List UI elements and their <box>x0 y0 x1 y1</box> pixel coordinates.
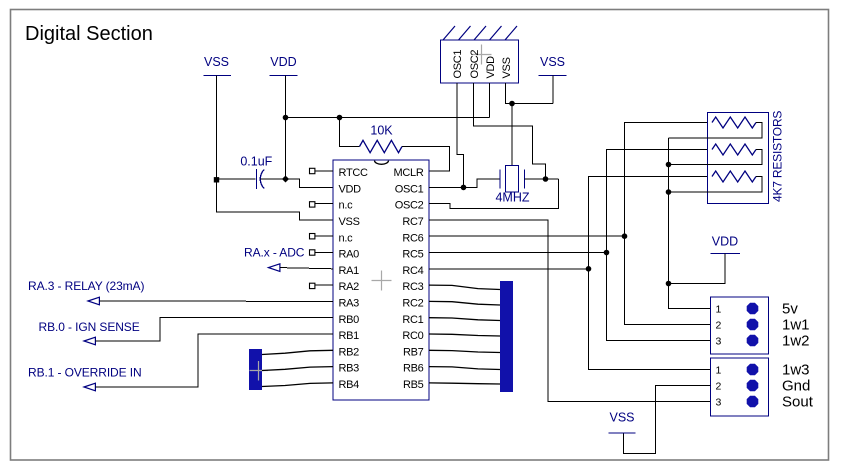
junction OSC1 node <box>461 185 467 191</box>
svg-text:RB1: RB1 <box>339 330 360 342</box>
svg-text:RB2: RB2 <box>339 346 360 358</box>
wire RB4 to left bus <box>262 383 333 387</box>
wire VDD symbol down to capacitor node <box>285 76 287 180</box>
wire RC6 row <box>429 235 625 237</box>
svg-text:RB7: RB7 <box>403 346 424 358</box>
svg-text:Digital Section: Digital Section <box>25 23 153 45</box>
unconnected pin RA0 <box>310 250 334 255</box>
svg-text:RB4: RB4 <box>339 379 360 391</box>
wire RC4 row <box>429 268 589 270</box>
svg-text:RA.3 - RELAY (23mA): RA.3 - RELAY (23mA) <box>28 279 144 293</box>
unconnected pin RA2 <box>310 283 334 288</box>
junction VDD tap <box>666 281 672 287</box>
svg-text:RA0: RA0 <box>339 249 360 261</box>
svg-text:RA3: RA3 <box>339 298 360 310</box>
wire RA3 <box>99 300 333 302</box>
svg-text:3: 3 <box>716 397 722 409</box>
IC U1 <box>333 160 429 400</box>
svg-text:RB3: RB3 <box>339 363 360 375</box>
svg-text:VDD: VDD <box>339 183 362 195</box>
svg-text:4K7 RESISTORS: 4K7 RESISTORS <box>770 111 784 202</box>
svg-text:4MHZ: 4MHZ <box>495 191 529 205</box>
junction RC4 / 1w3 <box>586 266 592 272</box>
wire OSC2 node to IC OSC2 pin <box>429 179 559 209</box>
svg-text:RB.1 - OVERRIDE IN: RB.1 - OVERRIDE IN <box>28 366 142 380</box>
junction RN1b return on VDD vertical <box>666 162 672 168</box>
svg-text:RA1: RA1 <box>339 265 360 277</box>
junction RC5 / 1w2 <box>604 250 610 256</box>
wire RC7 to Sout <box>429 220 711 402</box>
resistor RN1a <box>712 117 756 128</box>
svg-text:1: 1 <box>716 365 722 377</box>
svg-text:5v: 5v <box>782 301 798 318</box>
wire header pin OSC2 down to crystal right node <box>474 83 546 179</box>
svg-text:VSS: VSS <box>540 55 565 69</box>
svg-text:RA.x - ADC: RA.x - ADC <box>244 246 305 260</box>
power symbol VSS top-left <box>204 55 232 76</box>
wire RC0 to right bus <box>429 334 500 336</box>
junction capacitor node at VDD vertical <box>282 175 289 182</box>
svg-text:3: 3 <box>716 336 722 348</box>
svg-text:n.c: n.c <box>339 200 354 212</box>
wire RN1c return <box>669 177 763 193</box>
wire RB1 <box>95 334 333 387</box>
junction crystal case ground <box>509 101 515 107</box>
wire Gnd net to VSS <box>624 386 711 454</box>
wire RB6 to right bus <box>429 367 500 370</box>
power symbol VDD top-left <box>270 55 298 76</box>
power symbol VSS bottom <box>609 411 636 434</box>
power symbol VSS top-right <box>539 55 567 76</box>
wire header pin VDD down to VDD rail <box>489 83 491 118</box>
svg-text:OSC1: OSC1 <box>395 183 424 195</box>
wire 10K right lead to MCLR pin <box>402 147 450 172</box>
svg-text:n.c: n.c <box>339 232 354 244</box>
svg-text:RC0: RC0 <box>402 330 423 342</box>
svg-text:RB0: RB0 <box>339 314 360 326</box>
wire 1w2 net (R2 left lead to connector pin3) <box>607 150 713 341</box>
connector J3 <box>711 358 769 416</box>
junction VDD rail at 10K resistor <box>337 115 343 121</box>
wire RB5 to right bus <box>429 383 500 384</box>
svg-text:0.1uF: 0.1uF <box>240 155 272 169</box>
arrow RB1 <box>84 383 95 391</box>
wire header pin OSC1 down to OSC1 node <box>457 83 464 187</box>
svg-text:1w2: 1w2 <box>782 333 810 350</box>
wire VDD symbol to VDD vertical <box>669 254 726 284</box>
wire VSS rail to IC VSS pin <box>217 76 334 220</box>
junction RN1c return on VDD vertical <box>666 189 672 195</box>
junction RC6 / 1w1 <box>622 233 628 239</box>
junction VDD rail at VDD symbol <box>283 115 289 121</box>
svg-text:RB.0 - IGN SENSE: RB.0 - IGN SENSE <box>39 320 140 334</box>
wire VSS symbol stem <box>552 76 554 104</box>
svg-text:2: 2 <box>716 381 722 393</box>
wire VSS line to capacitor <box>217 178 256 180</box>
svg-text:1w1: 1w1 <box>782 317 810 334</box>
resistor pack 4K7 RESISTORS <box>708 111 785 204</box>
svg-text:RC4: RC4 <box>402 265 423 277</box>
unconnected pin n.c (pin5) <box>310 234 334 239</box>
svg-text:RB5: RB5 <box>403 379 424 391</box>
svg-text:VSS: VSS <box>609 411 634 425</box>
svg-text:VDD: VDD <box>712 234 738 248</box>
svg-text:RB6: RB6 <box>403 363 424 375</box>
svg-text:RC3: RC3 <box>402 281 423 293</box>
svg-text:1w3: 1w3 <box>782 362 810 379</box>
arrow RB0 <box>84 337 95 345</box>
svg-text:VSS: VSS <box>501 57 513 78</box>
wire RN1a return <box>669 123 763 139</box>
svg-text:10K: 10K <box>370 124 393 138</box>
wire RB7 to right bus <box>429 350 500 352</box>
unconnected pin RTCC <box>310 168 334 173</box>
wire VDD rail to 10K left lead <box>340 118 360 147</box>
svg-text:RC2: RC2 <box>402 298 423 310</box>
wire header pin VSS to VSS symbol <box>506 83 554 104</box>
svg-text:RC1: RC1 <box>402 314 423 326</box>
header J1 oscillator test points <box>441 26 519 83</box>
wire VDD vertical to connector pin1 <box>669 138 711 309</box>
wire RC2 to right bus <box>429 301 500 305</box>
wire IC OSC1 row <box>429 186 464 188</box>
unconnected pin n.c (pin3) <box>310 202 334 207</box>
wire RC1 to right bus <box>429 318 500 321</box>
bus connector left <box>249 349 268 390</box>
svg-text:2: 2 <box>716 320 722 332</box>
capacitor C1 0.1uF <box>240 155 272 190</box>
resistor 10K <box>360 124 403 153</box>
crystal X1 4MHZ <box>495 166 529 205</box>
resistor RN1c <box>712 171 756 182</box>
wire RB2 to left bus <box>262 350 333 354</box>
svg-text:1: 1 <box>716 304 722 316</box>
wire 1w3 net (R3 left lead to connector2 pin1) <box>589 177 713 370</box>
svg-text:RC6: RC6 <box>402 232 423 244</box>
svg-text:VDD: VDD <box>485 56 497 79</box>
svg-text:OSC2: OSC2 <box>469 50 481 79</box>
svg-text:VSS: VSS <box>339 216 360 228</box>
wire capacitor to IC VDD pin <box>261 179 334 187</box>
svg-text:VSS: VSS <box>204 55 229 69</box>
connector J2 <box>711 297 769 354</box>
arrow RA1 <box>269 264 280 272</box>
wire crystal right plate to OSC2 node <box>525 178 559 180</box>
junction on VSS line (square) <box>214 177 219 182</box>
svg-text:RA2: RA2 <box>339 281 360 293</box>
svg-text:MCLR: MCLR <box>394 167 424 179</box>
wire RN1b return <box>669 150 763 165</box>
svg-text:Sout: Sout <box>782 394 814 411</box>
svg-text:OSC2: OSC2 <box>395 200 424 212</box>
wire RB3 to left bus <box>262 367 333 371</box>
wire RB0 <box>95 318 333 341</box>
wire crystal case to ground <box>511 104 513 166</box>
wire VDD rail horizontal <box>286 117 490 119</box>
wire 1w1 net (R1 left lead to connector pin2) <box>625 123 713 325</box>
svg-text:RC5: RC5 <box>402 249 423 261</box>
power symbol VDD right <box>711 234 741 253</box>
svg-text:OSC1: OSC1 <box>452 50 464 79</box>
resistor RN1b <box>712 144 756 155</box>
junction OSC2 node <box>543 176 549 182</box>
wire OSC1 node to crystal left plate <box>464 179 501 187</box>
svg-text:VDD: VDD <box>270 55 296 69</box>
svg-text:RTCC: RTCC <box>339 167 369 179</box>
wire RC3 to right bus <box>429 285 500 289</box>
svg-text:RC7: RC7 <box>402 216 423 228</box>
wire RC5 row <box>429 252 607 254</box>
svg-text:Gnd: Gnd <box>782 378 810 395</box>
arrow RA3 <box>88 297 99 305</box>
wire RA1 <box>280 268 333 269</box>
bus connector right <box>500 281 513 392</box>
